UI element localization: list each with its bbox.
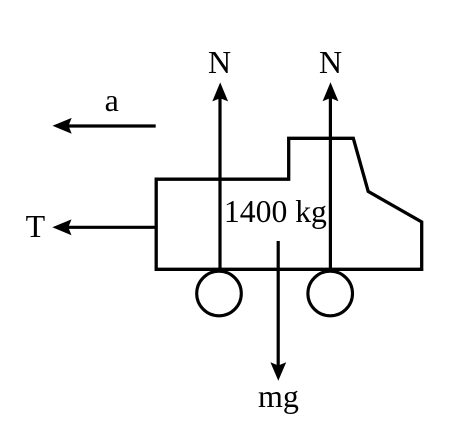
svg-text:1400 kg: 1400 kg xyxy=(224,194,327,229)
svg-text:T: T xyxy=(26,208,46,244)
svg-text:a: a xyxy=(105,82,119,118)
svg-text:N: N xyxy=(208,44,231,80)
svg-text:N: N xyxy=(319,44,342,80)
svg-text:mg: mg xyxy=(258,378,299,414)
